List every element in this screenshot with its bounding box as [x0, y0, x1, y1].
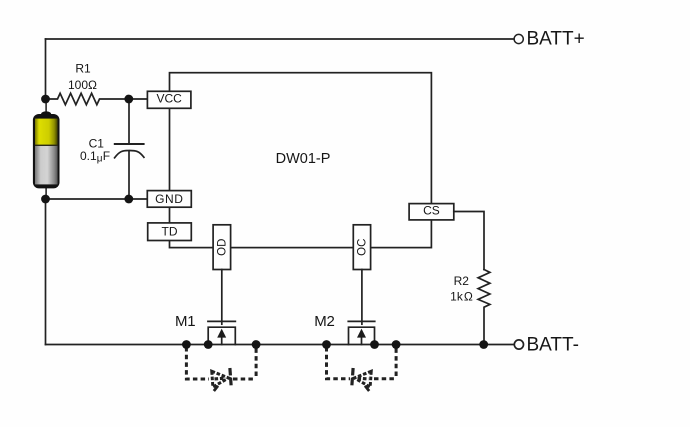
svg-text:R2: R2	[454, 274, 470, 288]
terminal BATT+ circle	[514, 34, 523, 43]
wire left rail upper segment	[45, 39, 47, 99]
svg-text:BATT+: BATT+	[527, 28, 585, 49]
svg-text:DW01-P: DW01-P	[276, 151, 331, 167]
pin box TD	[148, 223, 192, 241]
wire left rail lower segment	[45, 199, 47, 345]
pin box CS	[409, 204, 454, 220]
body diode D2 dashed loop	[327, 347, 351, 379]
terminal BATT- circle	[514, 340, 523, 349]
wire OC gate	[361, 270, 363, 325]
capacitor C1	[128, 99, 130, 144]
battery BT1	[33, 99, 60, 199]
body diode D2 symbol	[352, 368, 372, 391]
wire GND row	[46, 198, 148, 200]
pin box OD	[213, 225, 231, 270]
svg-text:BATT-: BATT-	[527, 334, 579, 355]
svg-text:OD: OD	[217, 239, 229, 256]
pin box OC	[353, 225, 370, 270]
wire BATT+ top rail	[46, 38, 514, 40]
svg-text:0.1μF: 0.1μF	[80, 149, 110, 165]
svg-text:R1: R1	[75, 62, 91, 76]
wire CS to R2	[454, 212, 484, 270]
resistor R2	[478, 270, 490, 345]
pin box VCC	[147, 91, 191, 108]
wire OD gate	[221, 270, 223, 325]
svg-text:GND: GND	[155, 192, 183, 206]
body diode D1 symbol	[212, 368, 232, 391]
svg-text:1k Ω: 1k Ω	[450, 290, 473, 304]
wire bottom rail	[46, 344, 514, 346]
svg-text:VCC: VCC	[157, 91, 183, 105]
op-amp U1 DW01-P outline	[170, 73, 432, 248]
svg-text:CS: CS	[423, 204, 440, 218]
transistor M2	[348, 321, 374, 344]
svg-text:100Ω: 100Ω	[68, 78, 97, 92]
svg-text:OC: OC	[357, 239, 369, 256]
svg-text:M1: M1	[175, 313, 195, 330]
body diode D1 dashed loop	[186, 347, 209, 379]
resistor R1	[46, 93, 148, 104]
svg-text:M2: M2	[314, 313, 334, 330]
svg-text:TD: TD	[162, 224, 178, 238]
transistor M1	[208, 321, 235, 344]
pin box GND	[147, 191, 191, 208]
